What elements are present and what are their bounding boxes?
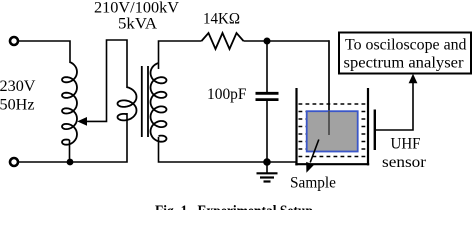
transformer core line 2 [147, 66, 149, 137]
wire capacitor top lead [266, 41, 268, 92]
transformer secondary coil [151, 63, 167, 142]
terminal T1 (line input top) [10, 37, 18, 45]
svg-text:UHF: UHF [391, 136, 421, 153]
tank right wall [367, 88, 369, 165]
svg-text:5kVA: 5kVA [118, 16, 157, 33]
svg-text:spectrum analyser: spectrum analyser [344, 55, 465, 72]
capacitor C1 top plate [256, 92, 279, 95]
wire variac bottom stub [69, 140, 71, 162]
svg-text:230V: 230V [0, 78, 36, 95]
analyser box [339, 33, 471, 74]
wire resistor to top-right corner [244, 40, 330, 42]
sample label arrowhead [306, 162, 314, 173]
wire secondary bottom stub to bottom rail [159, 137, 297, 162]
variac coil L1 [62, 62, 77, 145]
sample block [307, 111, 358, 151]
electrode wire down into tank [328, 40, 330, 111]
svg-text:sensor: sensor [382, 154, 427, 171]
electrode tip inside sample [328, 111, 330, 135]
svg-text:To osciloscope and: To osciloscope and [345, 36, 467, 53]
wire sensor to analyser box [376, 80, 413, 130]
sample label arrow line [310, 140, 319, 163]
terminal T2 (line input bottom) [10, 158, 18, 166]
junction dot A (variac bottom node) [67, 159, 74, 166]
svg-text:Sample: Sample [290, 174, 336, 191]
svg-text:14KΩ: 14KΩ [203, 10, 240, 27]
oil dashed lines [299, 104, 367, 157]
tank left wall [295, 88, 297, 165]
UHF sensor plate [374, 110, 376, 151]
variac wiper arrow wire [86, 40, 128, 121]
ground bar 1 [257, 172, 278, 174]
capacitor C1 bottom plate [256, 98, 279, 101]
variac wiper arrowhead [77, 117, 87, 126]
wire capacitor bottom lead [266, 101, 268, 162]
wire bottom primary: junction to transformer primary bottom [70, 113, 127, 162]
svg-text:Fig. 1. Experimental Setup: Fig. 1. Experimental Setup [155, 203, 313, 210]
wire top-left: terminal to variac top [18, 41, 70, 63]
ground bar 3 [264, 180, 271, 182]
wire secondary top stub to resistor [159, 41, 202, 69]
junction dot B (top node) [264, 38, 271, 45]
junction dot C (ground node) [263, 158, 271, 166]
wire bottom-left: terminal to junction [18, 161, 70, 163]
ground bar 2 [260, 176, 274, 178]
tank bottom [295, 163, 369, 165]
transformer primary coil [118, 87, 137, 120]
transformer core line 1 [141, 66, 143, 137]
svg-text:100pF: 100pF [207, 86, 247, 103]
svg-text:50Hz: 50Hz [0, 96, 35, 113]
ground stub [266, 162, 268, 173]
arrowhead up into box [409, 74, 418, 83]
svg-text:210V/100kV: 210V/100kV [94, 0, 179, 16]
resistor R1 [202, 33, 244, 49]
